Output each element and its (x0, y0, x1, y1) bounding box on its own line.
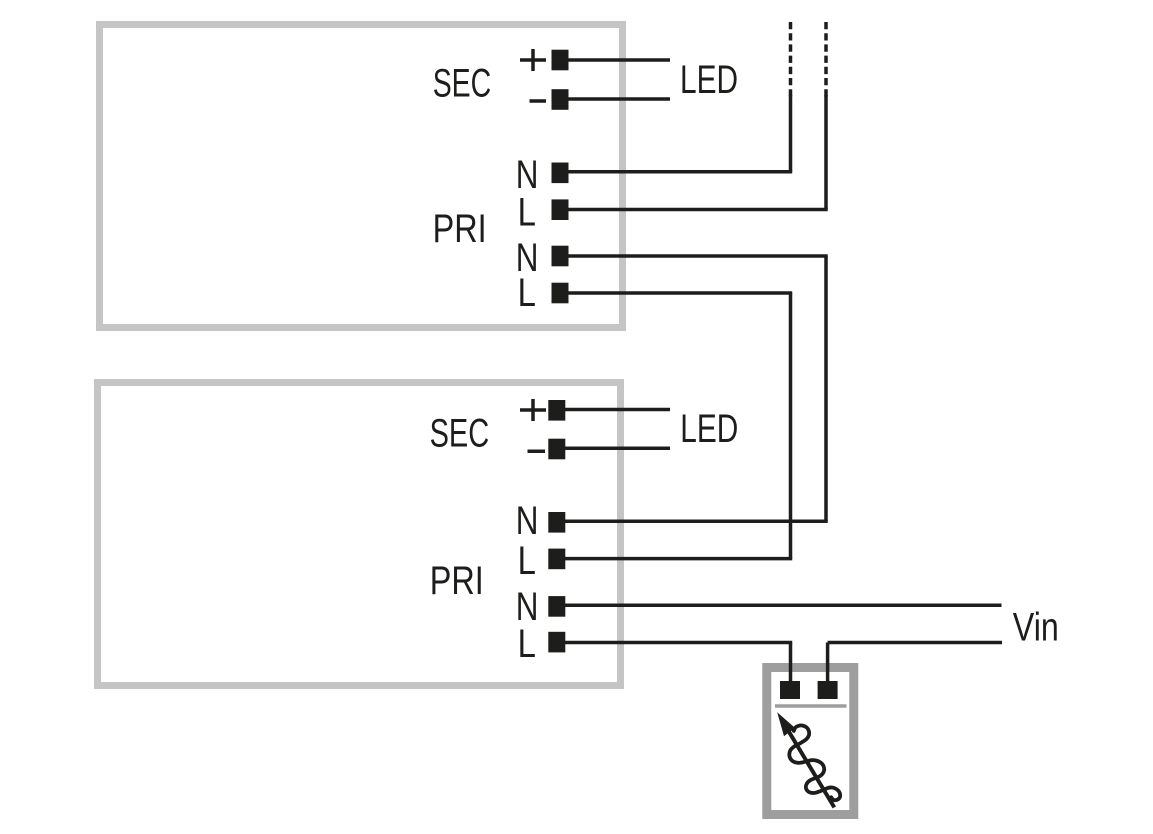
svg-text:Vin: Vin (1013, 605, 1059, 649)
svg-text:LED: LED (680, 407, 738, 451)
svg-text:L: L (518, 271, 536, 315)
svg-text:SEC: SEC (430, 411, 490, 455)
svg-text:SEC: SEC (433, 61, 492, 105)
svg-text:PRI: PRI (433, 207, 487, 251)
svg-text:L: L (518, 539, 536, 583)
svg-text:L: L (518, 622, 536, 666)
svg-text:N: N (516, 499, 539, 543)
svg-text:PRI: PRI (430, 559, 484, 603)
svg-text:LED: LED (680, 58, 738, 102)
svg-text:L: L (518, 191, 536, 235)
